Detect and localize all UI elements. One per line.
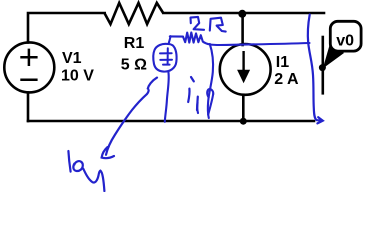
- pen swoop arrow to lower left: [102, 78, 157, 159]
- V1 plus sign: [20, 49, 37, 66]
- wire I1 branch bottom: [242, 95, 245, 121]
- pen hand-drawn source blob: [153, 44, 176, 72]
- resistor R1: [105, 3, 164, 24]
- wire V1 bottom to bottom rail: [27, 93, 30, 122]
- pen branch down right of blob (psi scribble): [207, 44, 213, 118]
- I1 arrow: [237, 51, 250, 83]
- svg-text:R1: R1: [124, 35, 145, 52]
- pen squiggle resistor + long lead to the right: [170, 33, 310, 46]
- current source I1 circle: [220, 44, 271, 95]
- svg-text:2 A: 2 A: [274, 71, 299, 88]
- pen glyph "2" (blue ink, top centre): [191, 17, 205, 30]
- svg-text:V1: V1: [62, 50, 82, 67]
- wire top from resistor to right end: [164, 12, 325, 15]
- pen stem from squiggle down to hand-drawn source: [169, 36, 171, 44]
- pen glyph "ohm" (blue ink, top centre): [210, 18, 226, 32]
- node v0 (dot on right stub): [319, 64, 326, 71]
- svg-text:v0: v0: [336, 33, 354, 50]
- svg-text:10 V: 10 V: [61, 67, 94, 84]
- wire bottom rail: [28, 120, 314, 123]
- V1 minus sign: [20, 78, 37, 81]
- pen label i1 (handwritten): [188, 77, 198, 110]
- wire top-left from V1 up and across to resistor: [28, 13, 105, 43]
- pen blob centre leg down to bottom rail: [165, 72, 169, 122]
- junction node top (dot): [238, 10, 246, 18]
- pen swoosh after lo: [83, 169, 104, 191]
- svg-text:I1: I1: [276, 54, 289, 71]
- pen small tick left of current source: [196, 103, 199, 113]
- voltage source V1 circle: [4, 42, 54, 92]
- pen plus-minus symbol in blob: [160, 48, 172, 64]
- junction node bottom (dot): [240, 118, 247, 125]
- wire I1 branch top: [241, 14, 244, 45]
- wire right stub (open branch): [321, 37, 324, 93]
- v0 callout tail: [323, 44, 344, 69]
- pen long vertical line at right with arrow on bottom rail: [308, 15, 323, 124]
- svg-text:5 Ω: 5 Ω: [121, 56, 147, 73]
- pen minus signs in blob: [160, 60, 172, 65]
- v0 callout bubble: [330, 21, 361, 51]
- pen label lo (handwritten i0): [68, 151, 82, 172]
